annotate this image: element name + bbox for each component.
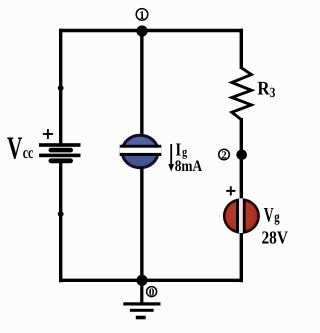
wire right upper <box>240 29 243 69</box>
svg-text:0: 0 <box>149 287 155 299</box>
node 1 label <box>136 8 148 22</box>
wire top <box>59 29 243 32</box>
svg-text:g: g <box>274 210 280 226</box>
svg-text:2: 2 <box>221 150 227 162</box>
node 0 label <box>147 287 157 299</box>
label Vcc <box>7 130 33 166</box>
label R3 <box>257 79 275 101</box>
plus sign of Vg <box>226 186 235 195</box>
svg-text:1: 1 <box>139 8 145 22</box>
wire right lower <box>240 233 243 282</box>
svg-text:I: I <box>175 140 181 160</box>
small dot left wire lower <box>58 211 64 217</box>
svg-text:28V: 28V <box>262 228 288 248</box>
wire left upper <box>59 29 62 145</box>
wire left lower <box>59 163 62 283</box>
svg-text:cc: cc <box>23 143 33 162</box>
battery Vcc <box>39 143 81 163</box>
arrow Ig <box>168 144 174 172</box>
plus sign of Vcc <box>43 129 53 139</box>
wire right middle <box>240 118 243 200</box>
junction node 0 <box>136 275 147 286</box>
label Vg 28V <box>262 205 288 248</box>
resistor R3 <box>232 68 252 120</box>
node 2 label <box>219 149 230 161</box>
wire middle upper <box>140 29 143 136</box>
wire middle lower <box>140 167 143 282</box>
svg-text:V: V <box>7 130 22 166</box>
junction node 2 <box>236 150 247 161</box>
voltage source Vg <box>224 197 258 235</box>
svg-text:3: 3 <box>270 86 276 101</box>
svg-text:g: g <box>182 145 188 159</box>
small dot left wire upper <box>58 85 64 91</box>
wire bottom <box>59 279 243 282</box>
label Ig 8mA <box>175 140 203 175</box>
svg-text:R: R <box>257 79 270 100</box>
svg-text:V: V <box>264 205 274 227</box>
svg-text:8mA: 8mA <box>175 158 203 175</box>
junction node 1 <box>136 25 147 36</box>
current source Ig <box>120 135 162 167</box>
ground <box>123 280 160 319</box>
